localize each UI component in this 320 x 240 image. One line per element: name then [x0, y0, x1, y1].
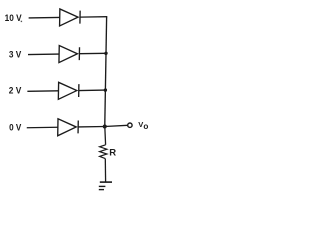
- svg-text:o: o: [143, 122, 148, 131]
- svg-text:R: R: [109, 148, 116, 159]
- svg-text:10 V: 10 V: [5, 12, 23, 23]
- svg-text:3 V: 3 V: [9, 48, 22, 59]
- svg-text:0 V: 0 V: [9, 121, 22, 132]
- svg-text:2 V: 2 V: [9, 85, 22, 96]
